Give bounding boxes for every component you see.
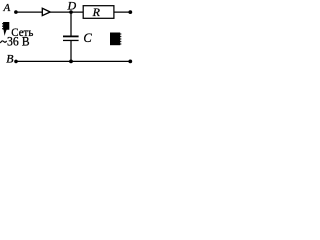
capacitor C bottom plate [63, 40, 79, 41]
wire node D down to capacitor [70, 12, 72, 36]
wire rectifier to node D [50, 11, 83, 13]
node D junction dot [69, 10, 73, 14]
mains arrow mark teeth [2, 23, 3, 24]
right top terminal dot [128, 10, 132, 14]
mains input arrow mark [3, 22, 9, 36]
load block mark teeth [120, 33, 121, 34]
load block mark [110, 33, 120, 46]
svg-text:36 В: 36 В [7, 35, 30, 49]
mains label line 2 [1, 41, 7, 43]
bottom rail wire [16, 60, 130, 62]
wire A to rectifier [16, 11, 42, 13]
svg-text:C: C [83, 31, 92, 45]
capacitor C top plate [63, 36, 79, 38]
terminal dot B [14, 60, 18, 64]
wire capacitor to bottom rail [70, 41, 72, 61]
terminal dot A [14, 10, 18, 14]
resistor R box [83, 6, 114, 19]
svg-text:R: R [92, 5, 101, 19]
rectifier triangle [42, 8, 50, 15]
right bottom terminal dot [128, 60, 132, 64]
svg-text:B: B [6, 52, 13, 66]
svg-text:A: A [3, 2, 11, 14]
bottom junction dot [69, 60, 73, 64]
wire R to right terminal [114, 11, 130, 13]
